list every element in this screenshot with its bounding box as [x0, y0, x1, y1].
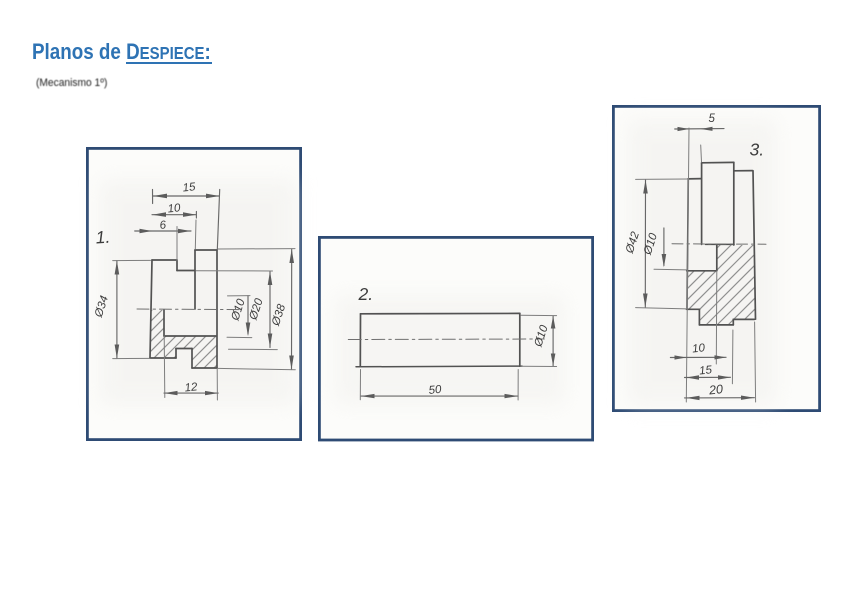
part 3 hub top edge: [702, 161, 734, 163]
part 3 step top edge: [734, 170, 753, 172]
dimension 20 (bottom of part 3): [685, 322, 756, 402]
part 1 centerline: [137, 308, 240, 311]
part 2 right end face: [519, 313, 521, 366]
part 1 outline: [150, 250, 217, 368]
dimension 15 (top): [153, 190, 220, 251]
part 3 centerline: [672, 243, 766, 245]
part 3 flange top edge: [688, 178, 701, 180]
dimension 12 (bottom): [164, 336, 218, 400]
part 3 counterbore bottom edge dia10: [687, 270, 717, 272]
title: [32, 39, 211, 65]
dimension 10 (bottom of part 3): [670, 271, 726, 364]
part 3 flange left face dia42: [687, 179, 688, 309]
svg-text:1.: 1.: [95, 227, 111, 248]
dimension 15 (bottom of part 3): [685, 330, 733, 384]
part 1 top edge dia20 section: [177, 270, 195, 272]
part 3 lower step right edge: [732, 319, 734, 325]
part 2 bottom edge: [356, 365, 522, 368]
part 3 hub extension bottom edge: [699, 324, 733, 326]
part 1 flange left edge: [194, 250, 196, 309]
box 1 frame: [87, 148, 300, 439]
dimension 6 (top): [135, 227, 191, 261]
box 3 frame: [613, 106, 819, 410]
part 1 step edge: [176, 260, 178, 271]
svg-text:3.: 3.: [750, 140, 765, 160]
part 2 top edge: [361, 312, 520, 314]
dimension 50 (bottom): [360, 370, 518, 401]
scan grey wash box 2: [335, 295, 565, 405]
part 2 centerline: [348, 338, 544, 341]
part 3 hub bore edge: [706, 243, 735, 245]
svg-text:5: 5: [709, 113, 716, 125]
part 3 counterbore wall: [716, 245, 718, 271]
part 3 outline: [687, 162, 756, 325]
part 1 bore bottom edge dia10: [164, 335, 217, 337]
scan grey wash box 1: [100, 180, 296, 405]
part 1 notch top edge: [176, 348, 192, 350]
part 3 right face: [753, 171, 756, 320]
dimension 10 (top): [152, 212, 196, 250]
box 2 frame: [319, 237, 592, 440]
dimension dia38 (far right of part 1): [218, 249, 295, 370]
part 3 right section bottom edge: [733, 318, 754, 320]
part 1 flange top edge dia38: [195, 249, 217, 251]
svg-text:15: 15: [182, 181, 197, 194]
part 3 flange bottom edge: [687, 308, 700, 310]
dimension dia34 (left): [113, 260, 151, 358]
svg-text:15: 15: [699, 364, 714, 377]
svg-text:2.: 2.: [358, 284, 374, 304]
part 3 lower step edge: [698, 309, 700, 325]
subtitle: [36, 77, 107, 89]
part 3 hub right edge: [733, 162, 735, 245]
part 1 flange bottom edge: [192, 367, 217, 369]
svg-text:10: 10: [692, 342, 707, 355]
part 3 section hatching: [607, 244, 831, 325]
svg-text:50: 50: [428, 384, 443, 397]
dimension dia20 (right of part 1): [196, 271, 277, 350]
part 2 left end face: [359, 314, 361, 367]
dimension 5 (top): [675, 128, 724, 402]
part 1 left face: [150, 260, 152, 358]
part 3 hub left edge: [701, 163, 703, 244]
scan grey wash box 3: [628, 120, 776, 405]
part 1 lower block bottom edge: [150, 357, 176, 359]
part 1 notch left edge: [175, 349, 177, 359]
title underline: [126, 62, 212, 65]
part 1 right face: [216, 250, 218, 368]
part 2 shaft outline: [356, 313, 522, 366]
part 1 section hatching: [94, 310, 272, 368]
part 1 bore wall edge: [163, 310, 165, 336]
part 1 top edge dia34 section: [152, 259, 177, 261]
dimension dia10 (right of part 2): [521, 315, 557, 366]
svg-text:10: 10: [167, 202, 182, 215]
svg-text:20: 20: [707, 382, 723, 397]
dimension dia42 (left of part 3): [636, 179, 688, 309]
part 1 flange block left edge: [191, 349, 193, 369]
dimension dia10 (left of part 3): [654, 228, 687, 270]
dimension dia10 (right of part 1): [227, 296, 252, 338]
svg-text:12: 12: [184, 381, 199, 394]
